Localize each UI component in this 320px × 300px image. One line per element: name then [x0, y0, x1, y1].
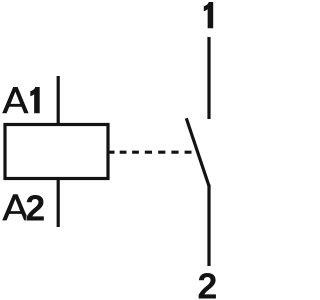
svg-text:2: 2 — [197, 265, 217, 300]
wire: A1 lead to coil top — [57, 76, 60, 123]
contact arm (normally-open moving contact) — [186, 118, 209, 186]
coil K1 (relay coil rectangle) — [5, 125, 108, 179]
wire: coil bottom to A2 lead — [57, 180, 60, 227]
label A2 — [2, 194, 28, 220]
svg-text:2: 2 — [25, 187, 45, 228]
mechanical link (dashed line coil to contact) — [109, 151, 199, 154]
pin label 1 — [204, 2, 213, 28]
label A1 — [2, 87, 28, 113]
wire: terminal 1 lead (fixed contact top) — [207, 37, 210, 119]
wire: contact bottom to terminal 2 lead — [207, 185, 210, 267]
